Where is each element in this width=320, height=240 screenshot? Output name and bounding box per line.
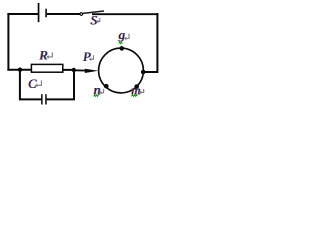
node dot m (bottom-right): [134, 84, 139, 89]
label g: [118, 27, 126, 42]
switch S blade: [83, 11, 104, 13]
label n: [93, 84, 101, 99]
green squiggle under g: [119, 42, 123, 44]
junction dot right: [72, 68, 76, 72]
svg-text:R: R: [39, 47, 48, 62]
resistor R box: [31, 64, 62, 72]
return mark after P: [89, 58, 92, 61]
pointer P arrowhead: [85, 69, 99, 73]
capacitor C left plate: [41, 94, 43, 104]
return mark after C: [35, 84, 38, 87]
node dot g (top): [120, 46, 125, 51]
green squiggle under n: [94, 95, 99, 97]
pointer P wire: [74, 69, 89, 71]
svg-text:P: P: [82, 50, 91, 64]
svg-text:g: g: [119, 27, 126, 42]
wire battery to switch: [47, 13, 80, 15]
wire right vertical: [156, 13, 158, 73]
label C: [28, 77, 38, 91]
wire top-left horizontal: [7, 13, 38, 15]
wire right-horizontal to circle: [143, 71, 158, 73]
return mark after m: [139, 91, 142, 94]
label S: [90, 13, 98, 28]
wire left vertical: [7, 13, 9, 71]
svg-text:C: C: [28, 77, 37, 91]
switch S pivot circle: [80, 13, 83, 16]
wire switch to top-right corner: [92, 13, 158, 15]
galvanometer ring: [99, 48, 144, 93]
wire capacitor branch left and bottom: [19, 70, 42, 101]
battery short plate: [45, 9, 47, 18]
capacitor C right plate: [45, 94, 47, 104]
green squiggle under m: [132, 95, 138, 97]
node dot n (bottom-left): [104, 84, 109, 89]
return mark after R: [46, 55, 49, 58]
node dot right: [141, 70, 146, 75]
label P: [82, 50, 92, 64]
junction dot left: [18, 68, 22, 72]
label m: [131, 82, 142, 97]
return mark after n: [99, 91, 102, 94]
label R: [38, 47, 48, 62]
return mark after g: [124, 37, 127, 40]
wire capacitor bottom right and up: [47, 70, 76, 100]
wire mid horizontal to resistor: [7, 69, 31, 71]
return mark after S: [96, 20, 99, 23]
wire resistor to junction: [63, 69, 75, 71]
battery long plate: [38, 3, 40, 22]
